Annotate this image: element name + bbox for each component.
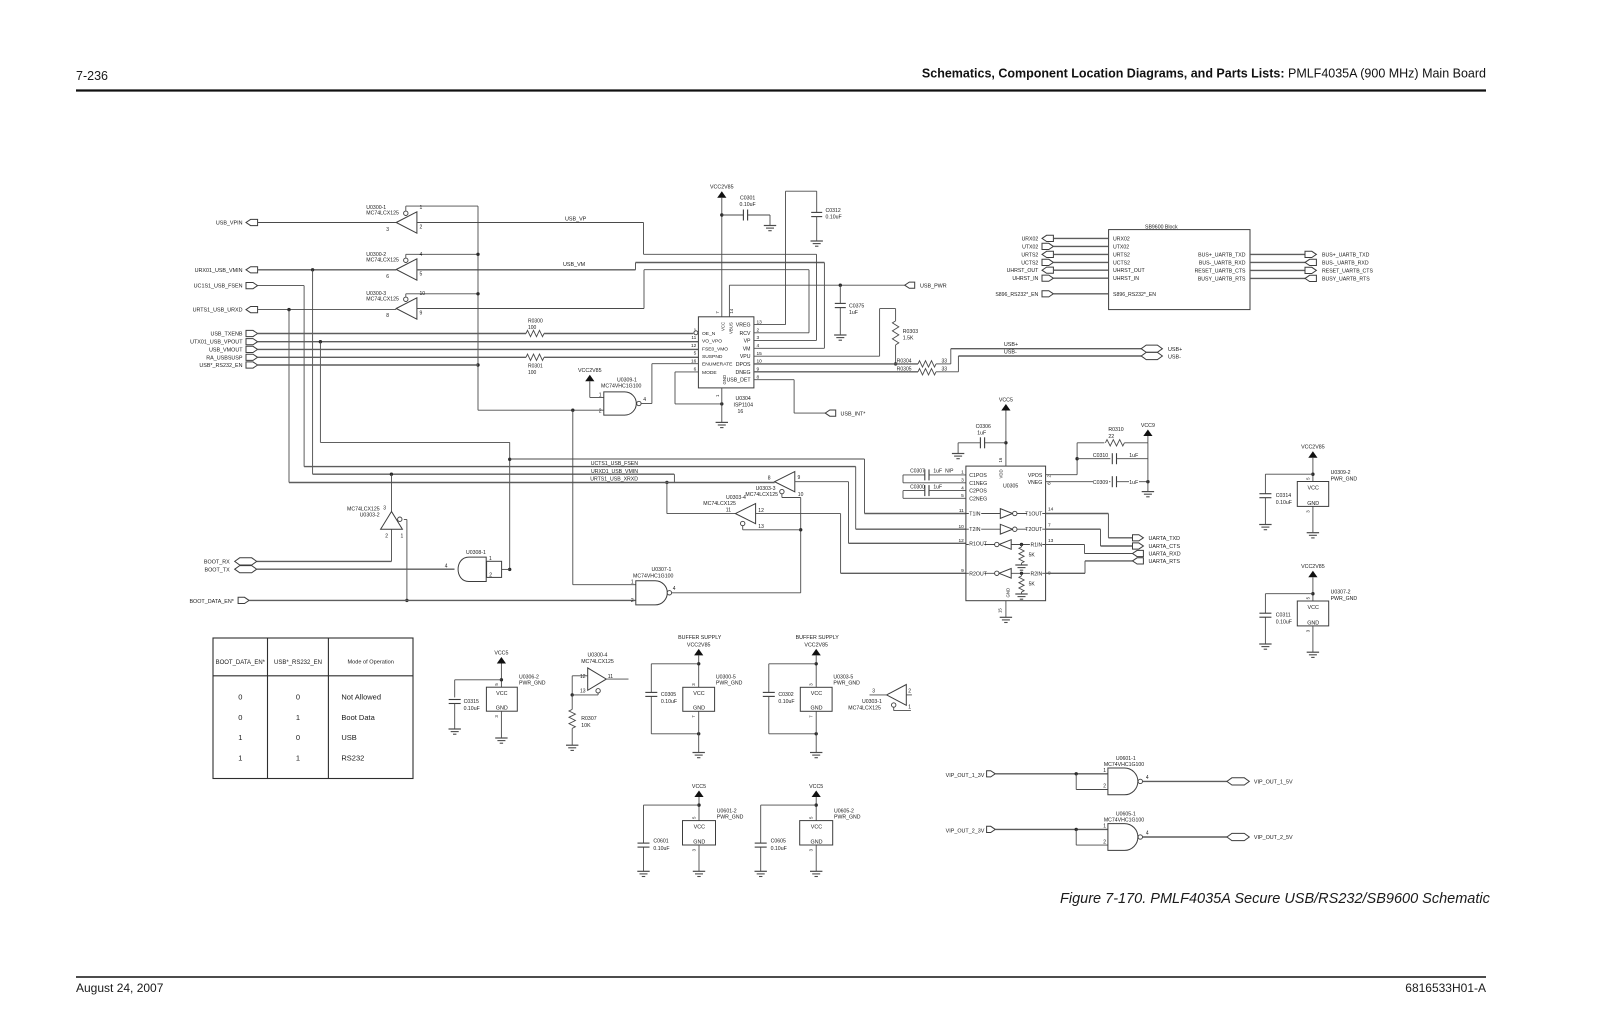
offpage connector USB- [1141, 352, 1181, 360]
svg-text:UARTA_CTS: UARTA_CTS [1149, 544, 1181, 550]
port BUS+_UARTB_TXD right [1250, 251, 1370, 258]
wire USB_DET [754, 380, 825, 413]
svg-text:1uF: 1uF [1129, 480, 1138, 486]
svg-text:RESET_UARTB_CTS: RESET_UARTB_CTS [1322, 268, 1373, 274]
svg-text:UTX01_USB_VPOUT: UTX01_USB_VPOUT [190, 340, 243, 346]
svg-text:URX02: URX02 [1022, 236, 1039, 242]
ground U0307-2 [1307, 652, 1319, 657]
wire U0307-1 output [672, 592, 801, 594]
ground U0305 [1000, 617, 1012, 622]
svg-text:1: 1 [238, 753, 242, 762]
wire RA_USBSUSP right [544, 356, 698, 358]
svg-text:4: 4 [445, 564, 448, 570]
svg-text:2: 2 [1103, 839, 1106, 845]
svg-text:URX02: URX02 [1113, 236, 1130, 242]
svg-text:GND: GND [1006, 588, 1011, 598]
wire U0605-1 output [1143, 836, 1227, 838]
port VIP_OUT_1_3V [946, 771, 996, 779]
wire URTS1_USB_URXD to U0300-3 output [258, 308, 397, 483]
wire U0305 GND stem [1005, 601, 1007, 618]
svg-text:1uF: 1uF [933, 469, 942, 475]
wire R1OUT to U0303-3 input [795, 482, 966, 544]
svg-text:DNEG: DNEG [736, 370, 751, 376]
svg-text:VCC: VCC [693, 691, 704, 697]
power VCC2V85 U0309-2 [1301, 445, 1325, 482]
svg-text:URTS2: URTS2 [1021, 252, 1038, 258]
svg-text:6816533H01-A: 6816533H01-A [1405, 981, 1486, 995]
svg-text:GND: GND [811, 706, 823, 712]
svg-text:UHRST_IN: UHRST_IN [1113, 276, 1139, 282]
wire net URTS1_USB_XRXD [289, 477, 775, 483]
svg-text:16: 16 [998, 457, 1003, 462]
ground for C0309 [1142, 492, 1154, 497]
svg-text:5K: 5K [1029, 581, 1036, 587]
svg-text:1uF: 1uF [849, 310, 858, 316]
port BOOT_RX [204, 558, 257, 566]
svg-text:PWR_GND: PWR_GND [1331, 476, 1358, 482]
svg-text:2: 2 [1103, 784, 1106, 790]
svg-text:PWR_GND: PWR_GND [716, 681, 743, 687]
svg-text:R0301: R0301 [528, 363, 543, 369]
svg-text:VIP_OUT_1_3V: VIP_OUT_1_3V [946, 773, 985, 779]
svg-text:12: 12 [958, 538, 964, 544]
power BUFFER SUPPLY VCC2V85 U0303-5 [796, 635, 840, 687]
svg-text:VM: VM [743, 346, 751, 352]
port USB_TXENB [210, 330, 257, 337]
capacitor C0311 0.10uF [1259, 592, 1314, 644]
svg-text:C0315: C0315 [464, 699, 479, 705]
svg-text:MC74LCX125: MC74LCX125 [366, 210, 399, 216]
svg-text:U0308-1: U0308-1 [466, 550, 486, 556]
buffer U0300-4 MC74LCX125 [580, 652, 614, 694]
power VCC5 at U0305 [999, 397, 1013, 466]
svg-text:BUSY_UARTB_RTS: BUSY_UARTB_RTS [1198, 276, 1246, 282]
svg-text:USB*_RS232_EN: USB*_RS232_EN [274, 660, 322, 666]
ic U0305 RS232 transceiver [958, 457, 1053, 613]
capacitor C0305 0.10uF [645, 664, 700, 736]
svg-text:C2POS: C2POS [969, 489, 987, 495]
power BUFFER SUPPLY VCC2V85 U0300-5 [678, 635, 722, 687]
svg-text:UHRST_OUT: UHRST_OUT [1007, 268, 1040, 274]
svg-text:2: 2 [385, 534, 388, 540]
svg-text:UARTA_RTS: UARTA_RTS [1149, 559, 1181, 565]
svg-text:VCC: VCC [496, 691, 507, 697]
power VCC5 U0601-2 [692, 784, 706, 821]
svg-text:C0314: C0314 [1276, 493, 1291, 499]
wire UC1S1_USB_FSEN vertical [258, 286, 305, 467]
wire VREG to C0312 [754, 191, 817, 324]
port RA_USBSUSP [206, 354, 257, 361]
svg-text:VBUS: VBUS [728, 322, 733, 334]
ground for C0312 [811, 241, 823, 246]
ground U0300-5 [693, 753, 705, 758]
ic U0306-2 PWR_GND [486, 674, 545, 717]
svg-text:Mode of Operation: Mode of Operation [348, 659, 394, 665]
svg-text:C0300: C0300 [910, 484, 925, 490]
capacitor C0300 1uF [903, 484, 966, 498]
svg-text:5K: 5K [1029, 552, 1036, 558]
svg-text:0: 0 [238, 693, 242, 702]
svg-text:R2OUT: R2OUT [969, 571, 987, 577]
svg-text:C0302: C0302 [778, 692, 793, 698]
svg-text:SB9600 Block: SB9600 Block [1145, 224, 1178, 230]
svg-text:1: 1 [599, 392, 602, 398]
capacitor C0601 0.10uF [638, 805, 700, 871]
svg-text:GND: GND [1307, 501, 1319, 507]
power VCC2V85 at U0304 [710, 185, 734, 317]
svg-text:N/P: N/P [945, 469, 954, 475]
port URTS2 [1021, 251, 1108, 258]
wire net URXD1_USB_VMIN [313, 469, 675, 476]
svg-text:USB_DET: USB_DET [727, 378, 752, 384]
wire BOOT_TX to U0308-1 [257, 568, 455, 570]
svg-text:VCC5: VCC5 [999, 397, 1013, 403]
svg-text:C0601: C0601 [653, 838, 668, 844]
buffer U0303-1 MC74LCX125 [848, 685, 911, 712]
svg-text:ENUMERATE: ENUMERATE [702, 362, 733, 368]
ic SB9600 block [1109, 224, 1250, 309]
svg-text:1: 1 [1103, 824, 1106, 830]
svg-text:UARTA_RXD: UARTA_RXD [1149, 552, 1181, 558]
capacitor C0375 1uF [835, 285, 865, 335]
power VCC5 U0605-2 [809, 784, 823, 821]
port UHRST_OUT [1007, 267, 1109, 274]
buffer U0300-1 MC74LCX125 [366, 205, 478, 233]
port VIP_OUT_2_3V [946, 826, 996, 834]
svg-text:R0305: R0305 [897, 367, 912, 373]
svg-text:10: 10 [420, 291, 426, 297]
svg-text:BUS-_UARTB_RXD: BUS-_UARTB_RXD [1322, 260, 1369, 266]
svg-text:VCC2V85: VCC2V85 [1301, 445, 1325, 451]
svg-text:1uF: 1uF [933, 484, 942, 490]
svg-text:0.10uF: 0.10uF [778, 699, 794, 705]
svg-text:13: 13 [758, 524, 764, 530]
svg-text:1: 1 [238, 733, 242, 742]
resistor R0304 33 [897, 358, 948, 367]
svg-text:1: 1 [401, 534, 404, 540]
wire MODE to GND [675, 372, 724, 423]
port UC1S1_USB_FSEN [194, 283, 258, 290]
ground U0605-2 [810, 871, 822, 876]
offpage connector VIP_OUT_2_5V [1227, 833, 1293, 841]
svg-text:S896_RS232*_EN: S896_RS232*_EN [995, 292, 1038, 298]
ic U0303-5 PWR_GND [800, 674, 860, 717]
svg-text:C1POS: C1POS [969, 473, 987, 479]
svg-text:4: 4 [643, 397, 646, 403]
svg-text:U0305: U0305 [1003, 484, 1018, 490]
svg-text:VCC: VCC [811, 691, 822, 697]
gate U0309-1 MC74VHC1G100 [599, 377, 647, 415]
wire U0303-5 gnd stem [815, 711, 817, 752]
svg-text:100: 100 [528, 370, 537, 376]
wire U0308-1 to control [502, 568, 510, 570]
svg-text:VO_VPO: VO_VPO [702, 339, 722, 345]
svg-text:R0304: R0304 [897, 358, 912, 364]
ground C0605 [755, 871, 767, 876]
svg-text:MC74LCX125: MC74LCX125 [703, 501, 736, 507]
svg-text:RA_USBSUSP: RA_USBSUSP [206, 355, 243, 361]
svg-text:12: 12 [691, 343, 697, 349]
svg-text:PWR_GND: PWR_GND [717, 815, 744, 821]
wire U0601-2 gnd stem [698, 845, 700, 871]
wire U0307-2 gnd stem [1312, 626, 1314, 652]
svg-text:T2IN: T2IN [969, 527, 980, 533]
port USB_VPIN [216, 219, 258, 226]
capacitor C0306 1uF [958, 424, 1006, 454]
figure caption [1060, 891, 1491, 907]
svg-text:R0303: R0303 [903, 329, 918, 335]
svg-text:GND: GND [693, 706, 705, 712]
svg-text:14: 14 [729, 308, 734, 313]
svg-text:USB-: USB- [1004, 350, 1017, 356]
svg-text:0.10uF: 0.10uF [1276, 500, 1292, 506]
page header left: 7-236 [76, 69, 108, 83]
svg-text:1: 1 [489, 556, 492, 562]
svg-text:Figure 7-170. PMLF4035A Secure: Figure 7-170. PMLF4035A Secure USB/RS232… [1060, 891, 1491, 907]
svg-text:C0301: C0301 [740, 195, 755, 201]
wire DNEG [754, 371, 918, 373]
svg-text:U0601-2: U0601-2 [717, 808, 737, 814]
port URX01_USB_VMIN [195, 267, 258, 274]
wire to R0310 [1077, 442, 1104, 444]
svg-text:13: 13 [580, 689, 586, 695]
svg-text:8: 8 [386, 313, 389, 319]
svg-text:USB_INT*: USB_INT* [841, 411, 867, 417]
power VCC9 [1141, 423, 1155, 443]
svg-text:1: 1 [631, 579, 634, 585]
wire RX tie to U0303-4 [665, 481, 735, 514]
svg-text:MC74VHC1G100: MC74VHC1G100 [633, 573, 673, 579]
svg-text:R0307: R0307 [581, 716, 596, 722]
wire U0300-3 input from RCV [417, 270, 809, 333]
svg-text:MC74LCX125: MC74LCX125 [581, 659, 614, 665]
svg-text:VCC: VCC [694, 825, 705, 831]
port URX02 [1022, 235, 1109, 242]
svg-text:MC74VHC1G100: MC74VHC1G100 [601, 384, 641, 390]
svg-text:C0305: C0305 [661, 692, 676, 698]
svg-text:RS232: RS232 [341, 753, 364, 762]
svg-text:UTX02: UTX02 [1022, 244, 1038, 250]
svg-text:Boot Data: Boot Data [341, 713, 375, 722]
wire VMIN step down [673, 474, 675, 482]
svg-text:1uF: 1uF [977, 431, 986, 437]
svg-text:15: 15 [998, 608, 1003, 613]
svg-text:11: 11 [959, 508, 964, 514]
svg-text:URX01_USB_VMIN: URX01_USB_VMIN [195, 268, 243, 274]
svg-text:BUFFER SUPPLY: BUFFER SUPPLY [796, 635, 840, 641]
resistor R0301 100 [526, 354, 544, 376]
svg-text:0.10uF: 0.10uF [1276, 620, 1292, 626]
svg-text:T2OUT: T2OUT [1025, 527, 1043, 533]
svg-text:8: 8 [768, 475, 771, 481]
svg-text:U0303-5: U0303-5 [833, 674, 853, 680]
port UARTA_RXD [1133, 550, 1181, 557]
svg-text:MC74VHC1G100: MC74VHC1G100 [1104, 762, 1144, 768]
svg-text:FSE0_VMO: FSE0_VMO [702, 347, 728, 353]
svg-text:0: 0 [238, 713, 242, 722]
wire net UCTS1_USB_FSEN [304, 461, 856, 467]
svg-text:0: 0 [296, 733, 300, 742]
footer left date [76, 981, 164, 995]
wire T1OUT [1046, 514, 1133, 538]
svg-text:U0307-2: U0307-2 [1331, 590, 1351, 596]
svg-text:1.5K: 1.5K [903, 336, 914, 342]
ic U0307-2 PWR_GND [1297, 590, 1357, 633]
svg-text:9: 9 [420, 311, 423, 317]
svg-text:2: 2 [489, 573, 492, 579]
svg-text:RCV: RCV [740, 331, 751, 337]
port BUSY_UARTB_RTS right [1250, 275, 1370, 282]
wire U0300-4 enable [572, 693, 598, 695]
svg-text:12: 12 [580, 674, 586, 680]
svg-text:USB_VP: USB_VP [565, 217, 587, 223]
svg-text:GND: GND [693, 839, 705, 845]
gate U0308-1 [445, 550, 502, 582]
resistor R0307 10K [569, 695, 597, 745]
svg-text:VCC: VCC [1308, 485, 1319, 491]
svg-text:GND: GND [1307, 620, 1319, 626]
ground for C0306 [952, 454, 964, 459]
svg-text:VCC: VCC [721, 322, 726, 331]
wire U0303-1 enable stub [894, 707, 911, 710]
buffer U0303-3 MC74LCX125 [745, 472, 803, 499]
svg-text:URTS2: URTS2 [1113, 252, 1130, 258]
port BOOT_DATA_EN* [189, 597, 249, 605]
port URTS1_USB_URXD [193, 307, 258, 314]
svg-text:MC74LCX125: MC74LCX125 [366, 257, 399, 263]
svg-text:VREG: VREG [736, 323, 751, 329]
capacitor C0315 0.10uF [449, 680, 502, 729]
svg-text:9: 9 [961, 568, 964, 574]
wire U0303-2 output up [391, 474, 393, 511]
wire VPOUT control horizontal [320, 441, 509, 443]
svg-text:10: 10 [958, 524, 964, 530]
svg-text:T1IN: T1IN [969, 512, 980, 518]
svg-text:UCTS2: UCTS2 [1113, 260, 1130, 266]
resistor R0305 33 [897, 367, 948, 376]
svg-text:U0303-2: U0303-2 [360, 513, 380, 519]
ground for R0307 [566, 745, 578, 750]
svg-text:SUSPND: SUSPND [702, 354, 723, 360]
wire DPOS [754, 363, 918, 365]
port UTX02 [1022, 243, 1108, 250]
svg-text:1: 1 [296, 753, 300, 762]
capacitor C0312 0.10uF [811, 191, 841, 241]
port RESET_UARTB_CTS right [1250, 267, 1373, 274]
svg-text:GND: GND [811, 839, 823, 845]
wire RCV stub [754, 332, 809, 334]
capacitor C0301 0.10uF [722, 195, 770, 225]
resistor R0300 100 [526, 319, 544, 337]
svg-text:VCC5: VCC5 [809, 784, 823, 790]
svg-text:0.10uF: 0.10uF [464, 706, 480, 712]
port BUS-_UARTB_RXD right [1250, 259, 1369, 266]
svg-text:VDD: VDD [999, 469, 1004, 478]
page header right title [922, 67, 1486, 81]
wire VIP_OUT_2_3V to U0605-1 [995, 828, 1108, 845]
svg-text:BOOT_DATA_EN*: BOOT_DATA_EN* [189, 599, 234, 605]
svg-text:U0307-1: U0307-1 [652, 567, 672, 573]
wire vertical to U0308-1 [508, 442, 511, 571]
capacitor C0309 1uF [1046, 476, 1150, 487]
ground C0311 [1259, 644, 1271, 649]
wire U0303-1 output stub [870, 694, 887, 696]
svg-text:22: 22 [1108, 434, 1114, 440]
wire to T2IN [856, 467, 966, 530]
wire USB_TXENB right [544, 333, 693, 335]
svg-text:VIP_OUT_2_5V: VIP_OUT_2_5V [1254, 835, 1293, 841]
offpage connector USB+ [1141, 345, 1182, 353]
wire T2OUT [1046, 529, 1133, 546]
power VCC5 at U0306-2 [494, 650, 508, 687]
svg-text:4: 4 [1146, 775, 1149, 781]
svg-text:BUS-_UARTB_RXD: BUS-_UARTB_RXD [1199, 260, 1246, 266]
svg-text:MODE: MODE [702, 370, 717, 376]
port UARTA_CTS [1133, 543, 1181, 550]
svg-text:4: 4 [420, 252, 423, 258]
svg-text:DPOS: DPOS [736, 362, 751, 368]
svg-text:12: 12 [758, 508, 764, 514]
wire URX01_USB_VMIN to U0300-2 output [258, 268, 397, 271]
wire UTX01_USB_VPOUT [258, 340, 699, 442]
svg-text:U0605-2: U0605-2 [834, 808, 854, 814]
svg-text:UHRST_IN: UHRST_IN [1012, 276, 1038, 282]
wire USB*_RS232_EN [258, 364, 478, 366]
wire VPOS [1046, 443, 1079, 475]
ground C0601 [637, 871, 649, 876]
svg-text:VNEG: VNEG [1028, 480, 1043, 486]
wire U0601-1 output [1143, 780, 1227, 782]
ground U0306-2 [495, 738, 507, 743]
svg-text:August 24, 2007: August 24, 2007 [76, 981, 164, 995]
svg-text:USB*_RS232_EN: USB*_RS232_EN [199, 363, 242, 369]
svg-text:PWR_GND: PWR_GND [834, 815, 861, 821]
wire U0303-4 enable [743, 526, 801, 530]
svg-text:VCC2V85: VCC2V85 [710, 185, 734, 191]
svg-text:11: 11 [691, 335, 696, 341]
svg-text:1: 1 [420, 205, 423, 211]
svg-text:UHRST_OUT: UHRST_OUT [1113, 268, 1146, 274]
svg-text:13: 13 [1048, 538, 1054, 544]
wire net USB_VM [417, 262, 825, 270]
wire RA_USBSUSP left [258, 356, 526, 358]
svg-text:UTX02: UTX02 [1113, 244, 1129, 250]
svg-text:0: 0 [296, 693, 300, 702]
wire VBUS to USB_PWR [729, 284, 904, 317]
svg-text:U0300-4: U0300-4 [588, 652, 608, 658]
svg-text:MC74LCX125: MC74LCX125 [366, 296, 399, 302]
capacitor C0605 0.10uF [755, 805, 817, 871]
buffer U0300-3 MC74LCX125 [366, 291, 478, 319]
svg-text:1: 1 [296, 713, 300, 722]
ground for C0375 [834, 335, 846, 340]
svg-text:VCC2V85: VCC2V85 [1301, 564, 1325, 570]
svg-text:4: 4 [673, 586, 676, 592]
port USB_VMOUT [209, 346, 258, 353]
svg-text:5: 5 [420, 272, 423, 278]
header rule [76, 89, 1486, 91]
wire U0300-4 output stub [606, 678, 628, 680]
wire VCC9 branch down [1147, 443, 1149, 492]
wire U0300-5 gnd stem [698, 711, 700, 752]
svg-text:5: 5 [694, 351, 697, 357]
svg-text:BUS+_UARTB_TXD: BUS+_UARTB_TXD [1322, 252, 1370, 258]
footer right doc number [1405, 981, 1486, 995]
svg-text:3: 3 [383, 506, 386, 512]
svg-text:VCC5: VCC5 [494, 650, 508, 656]
svg-text:2: 2 [420, 225, 423, 231]
svg-text:U0304: U0304 [736, 396, 751, 402]
